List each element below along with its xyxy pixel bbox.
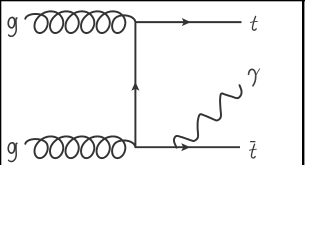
photon line (wavy) radiated from anti-top <box>174 85 242 147</box>
overbar of t-bar label <box>250 141 255 142</box>
label gamma (photon) main curl and tail <box>249 69 256 86</box>
label t (outgoing top quark) <box>250 16 257 30</box>
frame border top <box>0 0 305 1</box>
label t-bar (outgoing anti-top): t glyph <box>249 144 256 158</box>
frame border right <box>302 0 304 165</box>
gluon g1 (top incoming) <box>25 11 135 33</box>
label g (bottom incoming gluon) <box>8 143 17 162</box>
wire: outgoing anti-top line <box>135 146 240 148</box>
gluon g2 (bottom incoming) <box>25 136 135 158</box>
arrow on vertical propagator (pointing up) <box>131 82 139 91</box>
label g (top incoming gluon) <box>8 17 17 36</box>
frame border left <box>0 0 1 165</box>
arrow on top quark line <box>182 18 191 26</box>
arrow on bottom anti-top line <box>181 143 190 151</box>
wire: internal top-quark propagator (vertical) <box>134 22 136 147</box>
label gamma right thin stroke <box>256 69 260 76</box>
wire: outgoing top quark line <box>135 21 241 23</box>
